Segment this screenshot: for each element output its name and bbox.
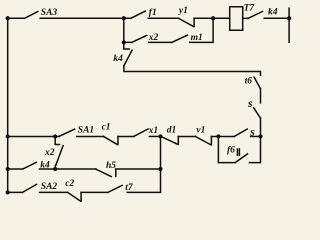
wire k4 to node7 bbox=[40, 168, 56, 170]
break contact x2 vertical bbox=[55, 136, 63, 169]
wire h5 to vertical bbox=[116, 168, 161, 170]
switch SA1 bbox=[59, 129, 74, 136]
wire middle rail left bbox=[8, 135, 59, 137]
break contact c2 bbox=[68, 192, 81, 201]
svg-text:SA2: SA2 bbox=[41, 182, 58, 192]
node dot node1 bbox=[122, 16, 126, 20]
node dot h5 right bbox=[158, 167, 162, 171]
node dot left-top bbox=[6, 16, 10, 20]
relay coil T7 bbox=[230, 7, 243, 31]
vertical connector x1-h5-bottom bbox=[160, 136, 162, 192]
break contact h5 bbox=[96, 169, 116, 177]
wire SA2 to c2 bbox=[40, 191, 68, 193]
wire coil to k4 bbox=[243, 17, 248, 19]
node dot node7 bbox=[53, 167, 57, 171]
svg-text:m1: m1 bbox=[191, 33, 203, 43]
svg-text:f6: f6 bbox=[227, 146, 235, 156]
contact x2 top bbox=[132, 35, 147, 42]
node dot mid-left bbox=[6, 134, 10, 138]
svg-text:SA3: SA3 bbox=[41, 8, 58, 18]
wire node2 right bbox=[124, 41, 132, 43]
svg-text:k4: k4 bbox=[40, 160, 50, 170]
break contact c1 bbox=[104, 136, 119, 144]
wire f1 to y1 bbox=[148, 17, 178, 19]
break contact d1 bbox=[161, 136, 178, 144]
wire top rail SA3 to node1 bbox=[40, 17, 131, 19]
wire c2 to t7 bbox=[81, 191, 108, 193]
wire s to node6 bbox=[251, 135, 261, 137]
wire t7 to vertical bbox=[127, 191, 160, 193]
wire x1 to node4 bbox=[149, 135, 160, 137]
contact f1 bbox=[131, 11, 146, 18]
contact s upper bbox=[254, 108, 261, 118]
svg-text:t6: t6 bbox=[245, 76, 253, 86]
svg-text:k4: k4 bbox=[113, 54, 123, 64]
svg-text:c1: c1 bbox=[102, 122, 111, 132]
svg-text:T7: T7 bbox=[244, 3, 256, 13]
svg-text:f1: f1 bbox=[149, 8, 157, 18]
right stub bbox=[288, 8, 290, 42]
wire x2 to m1 bbox=[149, 41, 172, 43]
wire SA1 to c1 bbox=[77, 135, 104, 137]
wire t6 to s bbox=[260, 89, 262, 103]
node dot x1 bbox=[158, 134, 162, 138]
svg-text:c2: c2 bbox=[65, 179, 74, 189]
svg-text:SA1: SA1 bbox=[78, 126, 94, 136]
node dot SA1 bbox=[53, 134, 57, 138]
wire v1 to node5 bbox=[211, 135, 234, 137]
node dot f6 right bbox=[258, 134, 262, 138]
switch SA3 bbox=[25, 12, 38, 19]
wire f6 branch left bbox=[218, 136, 235, 162]
contact x1 bbox=[134, 129, 148, 137]
svg-text:s: s bbox=[247, 98, 253, 110]
node dot bottom-left bbox=[6, 190, 10, 194]
contact k4 left bbox=[23, 162, 37, 169]
wire k4 branch across bbox=[124, 66, 261, 76]
node dot k4-rail-left bbox=[6, 167, 10, 171]
break contact y1 bbox=[178, 18, 194, 26]
wire f6 branch right bbox=[249, 136, 260, 162]
svg-text:t7: t7 bbox=[125, 183, 134, 193]
svg-text:s: s bbox=[249, 127, 255, 139]
svg-text:h5: h5 bbox=[106, 161, 116, 171]
wire top rail left bbox=[8, 17, 25, 19]
left bus bbox=[7, 18, 9, 192]
node dot node2 bbox=[122, 40, 126, 44]
node dot node3 bbox=[211, 16, 215, 20]
svg-text:x1: x1 bbox=[148, 126, 159, 136]
svg-text:x2: x2 bbox=[148, 33, 159, 43]
break contact v1 bbox=[196, 136, 212, 144]
wire bottom rail left bbox=[8, 191, 23, 193]
contact k4 top bbox=[248, 11, 262, 18]
node dot f6 left bbox=[216, 134, 220, 138]
wire y1 to coil bbox=[194, 17, 230, 19]
svg-text:v1: v1 bbox=[196, 125, 205, 135]
contact t7 bbox=[108, 185, 123, 192]
svg-text:y1: y1 bbox=[178, 6, 188, 16]
wire d1 to v1 bbox=[178, 135, 195, 137]
wire node1 down bbox=[123, 18, 125, 42]
svg-text:k4: k4 bbox=[268, 7, 278, 17]
wire k4 to right stub bbox=[264, 17, 289, 19]
wire k4 rail left bbox=[8, 168, 23, 170]
svg-text:d1: d1 bbox=[167, 125, 177, 135]
wire s to middle rail bbox=[260, 118, 262, 136]
contact s middle bbox=[234, 129, 247, 136]
break contact k4 vertical bbox=[124, 42, 132, 65]
wire m1 up to top rail bbox=[190, 18, 213, 42]
contact m1 bbox=[172, 35, 187, 42]
contact f6 bbox=[235, 149, 247, 163]
contact t6 bbox=[254, 77, 260, 89]
svg-text:x2: x2 bbox=[44, 148, 55, 158]
node dot right stub bbox=[287, 16, 291, 20]
wire c1 to x1 bbox=[118, 135, 134, 137]
switch SA2 bbox=[23, 184, 37, 192]
wire h5 left bbox=[55, 168, 96, 170]
